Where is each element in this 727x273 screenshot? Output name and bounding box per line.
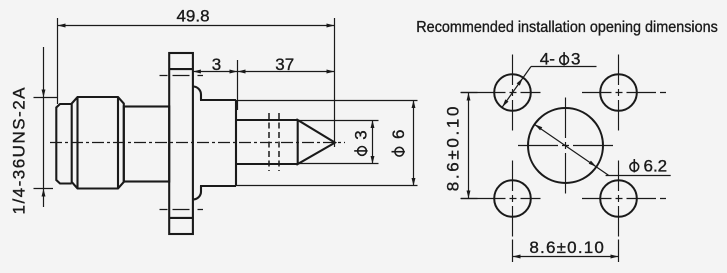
svg-text:Recommended installation openi: Recommended installation opening dimensi… [416,19,718,36]
svg-text:3: 3 [571,50,580,69]
svg-text:8.6±0.10: 8.6±0.10 [529,238,604,257]
svg-text:37: 37 [275,55,294,74]
svg-text:4-: 4- [540,50,555,69]
svg-text:6: 6 [389,130,408,139]
svg-text:6.2: 6.2 [644,156,668,175]
svg-text:1/4-36UNS-2A: 1/4-36UNS-2A [10,87,29,215]
svg-text:3: 3 [212,55,221,74]
svg-text:3: 3 [352,130,371,139]
svg-text:49.8: 49.8 [176,7,209,26]
